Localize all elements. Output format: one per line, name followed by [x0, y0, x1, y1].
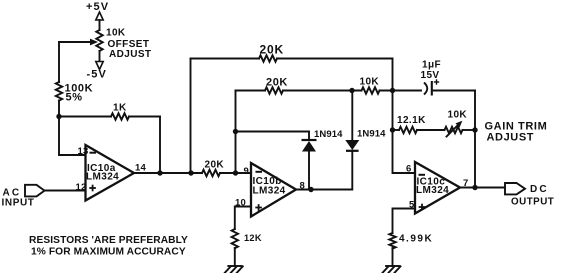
svg-text:13: 13: [78, 146, 89, 157]
svg-text:RESISTORS 'ARE PREFERABLY: RESISTORS 'ARE PREFERABLY: [29, 235, 188, 246]
node summing junction: [56, 114, 61, 119]
svg-text:-5V: -5V: [87, 69, 107, 81]
svg-text:10K: 10K: [360, 77, 380, 88]
svg-text:9: 9: [244, 166, 249, 177]
svg-text:1μF: 1μF: [422, 60, 441, 71]
resistor 20K second feedback: [236, 77, 362, 94]
wire rail pin9 node: [235, 91, 237, 174]
svg-text:20K: 20K: [260, 43, 284, 57]
resistor 20K input to IC10b: [202, 160, 251, 177]
wire rail to pin13: [59, 101, 86, 156]
potentiometer 10K gain trim: [445, 110, 476, 137]
DC output connector: [505, 183, 554, 208]
op-amp U2 IC10b LM324: [235, 163, 305, 217]
wire AC input to pin12: [45, 190, 86, 192]
node diode junction: [308, 187, 313, 192]
svg-text:5%: 5%: [66, 92, 83, 104]
svg-text:+5V: +5V: [86, 1, 109, 13]
svg-text:LM324: LM324: [86, 172, 119, 183]
resistor 100K 5%: [56, 82, 93, 104]
+5V supply: [86, 1, 109, 30]
op-amp U3 IC10c LM324: [406, 162, 468, 214]
resistor 12K: [232, 229, 262, 266]
svg-text:10K: 10K: [448, 110, 468, 121]
note text: [29, 235, 188, 258]
resistor 10K to averaging stage: [360, 77, 422, 94]
potentiometer 10K OFFSET ADJUST: [96, 28, 151, 61]
wire rail to top feedback: [190, 59, 192, 174]
svg-text:1% FOR MAXIMUM ACCURACY: 1% FOR MAXIMUM ACCURACY: [31, 247, 186, 258]
diode D1 1N914: [302, 129, 344, 190]
svg-text:6: 6: [406, 164, 411, 175]
svg-text:INPUT: INPUT: [2, 198, 35, 209]
ground below 12K: [225, 266, 243, 273]
wire rail to pin6: [393, 59, 416, 174]
capacitor 1uF 15V: [421, 60, 476, 96]
resistor 12.1K: [393, 115, 445, 133]
op-amp U1 IC10a LM324: [76, 145, 147, 201]
svg-text:8: 8: [300, 181, 305, 192]
wiper wire with arrow: [59, 39, 98, 46]
svg-text:ADJUST: ADJUST: [109, 49, 151, 60]
svg-text:LM324: LM324: [253, 186, 286, 197]
svg-text:DC: DC: [530, 184, 549, 195]
wire pin10: [235, 207, 251, 230]
svg-text:4.99K: 4.99K: [399, 234, 433, 245]
resistor 20K top feedback: [191, 43, 393, 62]
label gain trim adjust: [485, 121, 548, 144]
svg-text:12: 12: [76, 182, 87, 193]
svg-text:1N914: 1N914: [314, 129, 343, 140]
svg-text:12K: 12K: [244, 233, 262, 243]
wire 1K to output: [159, 117, 161, 174]
wire op-amp A output row: [134, 170, 202, 175]
svg-text:12.1K: 12.1K: [397, 115, 426, 126]
svg-text:14: 14: [135, 163, 146, 174]
wire op-amp C output: [460, 185, 505, 190]
svg-text:20K: 20K: [205, 160, 225, 171]
svg-text:LM324: LM324: [416, 185, 449, 196]
wire diode row: [233, 129, 309, 140]
resistor 4.99K: [389, 233, 433, 266]
svg-text:1K: 1K: [113, 103, 127, 114]
wire left rail: [58, 42, 60, 82]
svg-text:OUTPUT: OUTPUT: [511, 197, 554, 208]
svg-text:10K: 10K: [106, 28, 126, 39]
AC input connector: [2, 185, 45, 209]
svg-text:20K: 20K: [266, 77, 288, 89]
svg-text:1N914: 1N914: [357, 129, 386, 140]
wire pin5: [393, 209, 416, 234]
wire right rail: [474, 91, 476, 188]
resistor 1K feedback: [59, 103, 160, 120]
-5V supply: [87, 51, 107, 81]
diode D2 1N914: [296, 91, 386, 190]
svg-text:ADJUST: ADJUST: [487, 132, 535, 144]
ground below 4.99K: [383, 266, 401, 273]
